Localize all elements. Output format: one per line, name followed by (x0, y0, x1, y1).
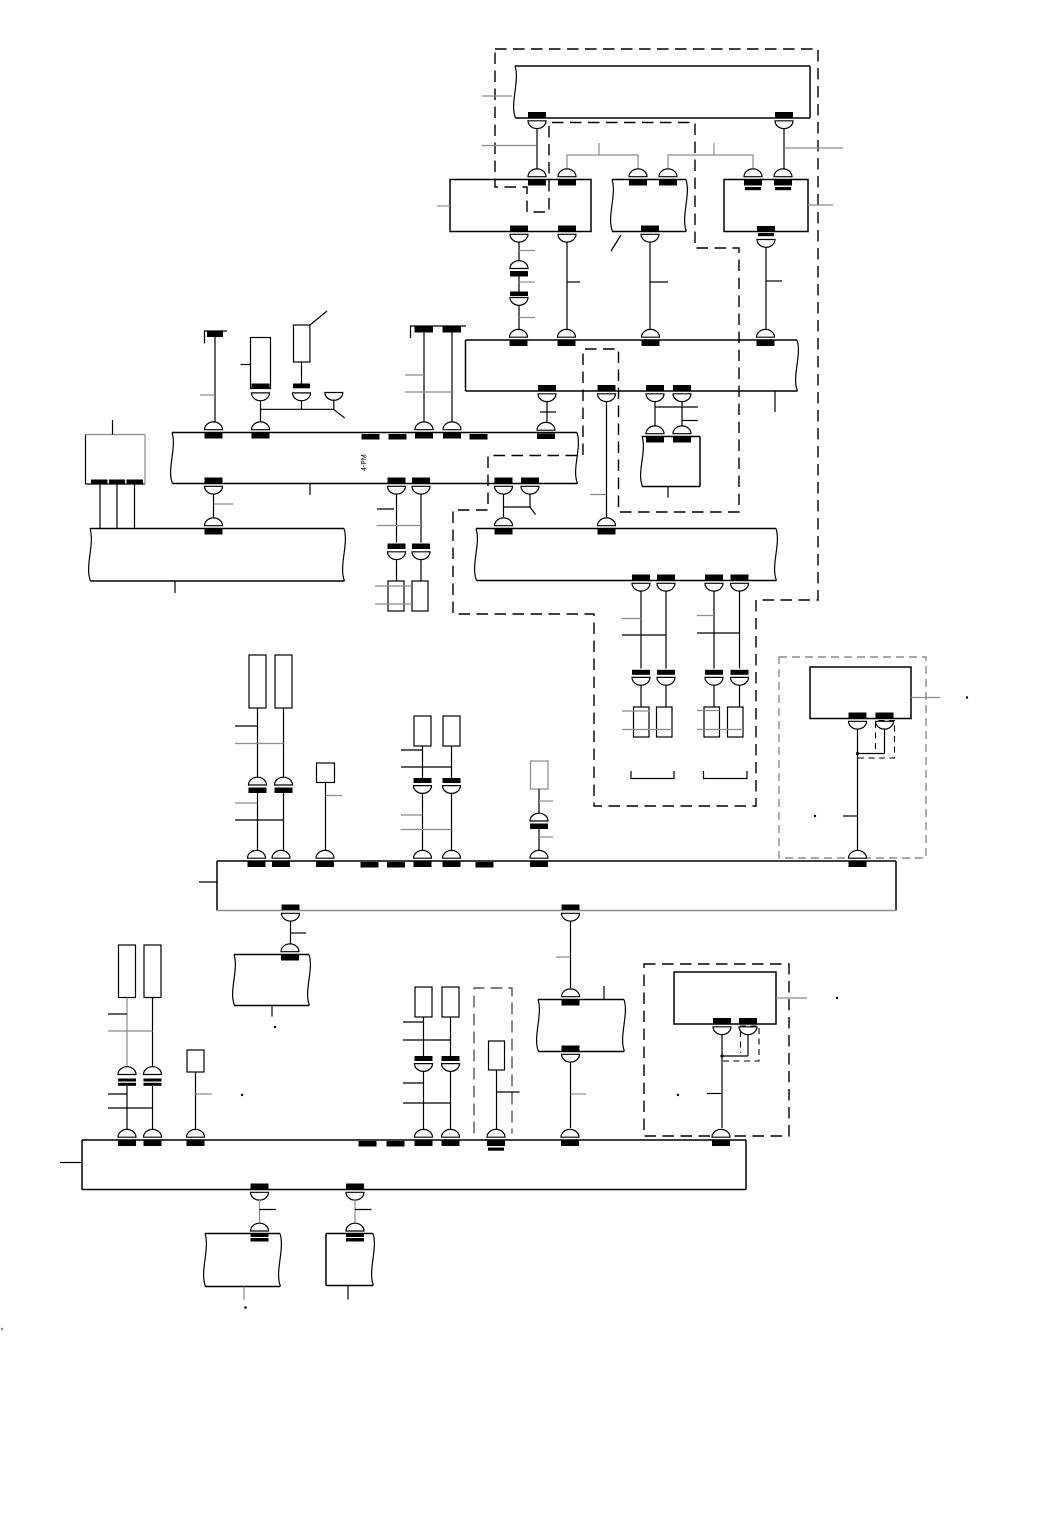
wire tick (567, 281, 580, 283)
breaker stab LB bottom x714 (705, 575, 723, 592)
wire tick (650, 281, 668, 283)
fuse feeder 3 (704, 707, 720, 737)
disconnect link B1 (414, 778, 432, 793)
wire (570, 1062, 572, 1128)
wire (496, 1070, 498, 1129)
dashed boundary around lower-right cabinet (644, 964, 789, 1136)
wire T1 lead b (116, 485, 118, 529)
wire (721, 1035, 723, 1128)
fuse FD1 (415, 987, 432, 1017)
disconnect link D2 (442, 1056, 460, 1071)
fuse feeder 2 (657, 707, 673, 737)
svg-text:4-РМ: 4-РМ (361, 454, 368, 471)
load box LC (187, 1050, 204, 1072)
breaker stab U1 bottom right (558, 226, 576, 243)
box U5 (lower right cabinet) (674, 972, 776, 1024)
wire (518, 242, 520, 261)
junction dot (856, 752, 859, 755)
bus B3 (LV busbar left) (89, 529, 346, 582)
wire (451, 333, 453, 422)
wire gray cross tick (401, 829, 452, 831)
breaker stab 4-PM bottom tie right (521, 478, 539, 495)
breaker stab U2 top right (659, 169, 677, 186)
disconnect link C2 (144, 1067, 162, 1086)
wire (422, 746, 424, 778)
breaker stab U5 bottom left (713, 1018, 731, 1035)
wire tick (497, 1091, 520, 1093)
wire tick (291, 932, 307, 934)
spare stab B5 a (359, 1141, 377, 1147)
dashed withdraw bracket U4 (858, 721, 895, 759)
wire (260, 401, 262, 422)
wire tick (355, 1209, 372, 1211)
breaker stab on box M2 (562, 989, 580, 1006)
wire (396, 494, 398, 543)
dot (677, 1094, 679, 1096)
breaker stab on bus B1 (from U3) (757, 329, 775, 346)
load box LD (489, 1041, 505, 1070)
wire gray tick (519, 281, 535, 283)
wire (152, 1086, 154, 1131)
wire cross tick (235, 819, 284, 821)
dot bottom left margin (1, 1328, 4, 1331)
wire (423, 1017, 425, 1056)
wire stub below TSN (667, 487, 669, 498)
breaker stab on bus B5 (from U5) (712, 1129, 730, 1146)
fuse FU1 (251, 338, 271, 389)
wire gray tick (539, 836, 553, 838)
breaker stab on bus B4 (from U4) (849, 850, 867, 867)
disconnect link A1 (249, 777, 267, 793)
breaker stab 4-PM bottom left (205, 478, 223, 495)
wire (566, 242, 568, 330)
breaker stab on bus B5 (from M2) (561, 1129, 579, 1146)
spare stab on 4-PM top 2 (389, 434, 407, 440)
spare stab B5 b (387, 1141, 405, 1147)
wire (649, 242, 651, 330)
wire gray cross tick (375, 585, 412, 587)
wire gray cross tick (235, 743, 284, 745)
wire (884, 730, 886, 754)
breaker stab on box U3 (774, 169, 792, 190)
wire (681, 401, 683, 426)
fuse FB1 (414, 716, 431, 746)
breaker stab on transformer TSN left (646, 426, 664, 443)
wire gray tick (697, 615, 714, 617)
wire gray link B (668, 155, 753, 168)
dashed withdraw bracket U5 (723, 1026, 759, 1061)
wire (857, 730, 859, 851)
wire (283, 793, 285, 852)
load box LB (gray) (531, 761, 549, 789)
junction dot (720, 1054, 723, 1057)
wire tick (682, 420, 698, 422)
disconnect link D1 (415, 1056, 433, 1071)
fuse FU2 (294, 325, 310, 362)
load box LA (317, 763, 335, 783)
dashed boundary of switchgear section (outer) (453, 49, 818, 806)
breaker stab on transformer TSN right (673, 426, 691, 443)
wire gray tick (377, 508, 394, 510)
breaker stab on B5 (C1) (118, 1129, 136, 1146)
wire (536, 129, 538, 169)
wire tick (766, 280, 782, 282)
breaker stab on bus B1 (from U1 left) (510, 329, 528, 346)
dot (241, 1094, 243, 1096)
dot (244, 1306, 247, 1309)
wire tick (540, 411, 556, 413)
wire gray cross tick (405, 391, 452, 393)
breaker stab on 4-PM (VT feeder) (252, 422, 270, 439)
dot (966, 696, 968, 698)
wire tick left of FU1 (241, 364, 251, 366)
terminal F1 (top flag) (204, 331, 227, 344)
wire gray link A stub (598, 143, 600, 155)
breaker stab U4 bottom left (849, 713, 867, 730)
cable bracket left (631, 771, 674, 779)
break slash below U2 (611, 235, 621, 251)
breaker stab 4-PM bottom x421 (412, 478, 430, 495)
wire T1 lead c (134, 485, 136, 529)
breaker stab on B4 (A1) (248, 850, 266, 867)
wire jumper (504, 506, 531, 508)
wire gray tick (519, 317, 535, 319)
wire gray tick (556, 956, 571, 958)
wire jumper (858, 753, 885, 755)
fuse feeder 4 (728, 707, 744, 737)
breaker stab on bus LB (tie) (495, 518, 513, 535)
breaker stab B5 bottom N2 (346, 1184, 364, 1201)
wire (546, 401, 548, 422)
box U1 (switchgear unit) (450, 180, 591, 232)
fuse FU1 element bar (252, 384, 270, 389)
wire gray cross tick (377, 525, 421, 527)
wire (503, 494, 505, 517)
breaker stab B5 bottom N1 (251, 1184, 269, 1201)
breaker stab M2 bottom (562, 1046, 580, 1063)
wire stub left of B5 (60, 1162, 82, 1164)
wire gray tick (235, 802, 258, 804)
breaker stab on bus 4-PM (tie from B1) (537, 422, 555, 439)
breaker stab U1 top right (558, 169, 576, 186)
breaker stab B1 bottom 1 (538, 385, 556, 402)
bus LB (lower middle busbar) (475, 529, 778, 581)
dot (274, 1026, 276, 1028)
wire (665, 591, 667, 669)
fuse FA1 (249, 655, 266, 708)
wire tick (403, 1021, 424, 1023)
breaker stab on box M1 (281, 944, 299, 961)
disconnect link C1 (118, 1067, 136, 1086)
wire (290, 921, 292, 945)
gray tick right of U4 (911, 697, 940, 699)
breaker stab on B4 (LA) (316, 850, 334, 867)
wire (665, 686, 667, 708)
wire tick (235, 725, 258, 727)
disconnect link B2 (443, 778, 461, 793)
wire (538, 789, 540, 813)
wire T1 lead a (99, 485, 101, 529)
dot (836, 997, 838, 999)
wire gray cross tick (375, 603, 412, 605)
wire cross tick (401, 766, 452, 768)
wire (640, 591, 642, 669)
wire gray tick left of U1 (437, 205, 450, 207)
disconnect switch cup (325, 393, 343, 401)
box U4 (right cabinet) (810, 667, 911, 719)
wire tick (260, 1209, 277, 1211)
wire (213, 494, 215, 517)
breaker stab B1 bottom 2 (598, 385, 616, 402)
wire gray tick (326, 795, 343, 797)
wire (640, 686, 642, 708)
breaker stab U3 bottom (double) (757, 226, 775, 247)
wire tick long (655, 406, 698, 408)
breaker stab B4 bottom right (562, 905, 580, 922)
disconnect link feeder (632, 670, 650, 685)
wire gray stub left of bus T (482, 95, 512, 97)
wire gray cross tick (622, 710, 650, 712)
wire stub left of B4 (199, 881, 217, 883)
wire tick (707, 1093, 722, 1095)
breaker stab 4-PM bottom tie left (495, 478, 513, 495)
wire gray tick right of U3 (808, 204, 833, 206)
breaker stab on bus T right (775, 112, 793, 129)
breaker stab B1 bottom 3 (646, 385, 664, 402)
wire gray link A (567, 155, 638, 168)
dashed boundary around feeder cell (474, 988, 512, 1134)
fuse FD2 (442, 987, 459, 1017)
wire (333, 400, 335, 410)
wire gray tick (571, 1093, 587, 1095)
wire (420, 560, 422, 581)
breaker stab on B5 (D1) (415, 1129, 433, 1146)
box U3 (switchgear unit) (724, 180, 808, 232)
spare stab B4 a (361, 862, 379, 868)
breaker stab on B5 (LD) (487, 1129, 505, 1150)
breaker stab on 4-PM (arrester) (205, 422, 223, 439)
breaker stab on B4 (LB) (530, 850, 548, 867)
wire cross tick (403, 1039, 451, 1041)
bus B1 (6kV section busbar) (466, 340, 799, 391)
breaker stab on B4 (B1) (414, 850, 432, 867)
wire (422, 794, 424, 853)
wire (152, 998, 154, 1068)
wire (126, 998, 128, 1068)
wire gray link B stub (713, 143, 715, 155)
disconnect link VT feeder (412, 544, 430, 560)
wire (654, 401, 656, 426)
wire cross tick (108, 1107, 153, 1109)
bus B4 (0.4kV busbar 1) (217, 861, 896, 911)
spare stab B4 c (476, 862, 494, 868)
wire tick (108, 1013, 127, 1015)
breaker stab U4 bottom right (876, 713, 894, 730)
wire gray tick (401, 814, 423, 816)
wire (570, 921, 572, 988)
disconnect link QS1 upper (510, 261, 528, 277)
wire (354, 1200, 356, 1223)
wire (739, 686, 741, 708)
box M1 (233, 955, 311, 1006)
fuse FB2 (443, 716, 460, 746)
breaker stab on bus B3 (205, 518, 223, 535)
wire (765, 248, 767, 331)
wire (257, 793, 259, 852)
disconnect blade (530, 507, 536, 515)
wire (529, 494, 531, 507)
wire gray cross tick (108, 1030, 153, 1032)
wire gray tick (196, 1093, 213, 1095)
wire (451, 746, 453, 778)
wire gray tick (200, 394, 215, 396)
gray tick right of U5 (776, 997, 807, 999)
pin stub on M2 top (603, 986, 605, 1000)
wire (126, 1086, 128, 1131)
wire jumper (722, 1055, 748, 1057)
fuse FC2 (144, 945, 161, 998)
wire gray cross tick (697, 710, 720, 712)
breaker stab on bus T left (528, 112, 546, 129)
wire (713, 686, 715, 708)
disconnect link VT feeder (388, 544, 406, 560)
wire gray cross tick (697, 729, 743, 731)
wire (747, 1035, 749, 1056)
wire (518, 276, 520, 292)
spare stab on 4-PM top 3 (470, 434, 488, 440)
wire cross tick (697, 632, 740, 634)
wire lead of FU2 (310, 311, 327, 325)
breaker stab on 4-PM (pair right) (443, 422, 461, 439)
wire stub below bus B1 right (774, 391, 776, 412)
wire (257, 708, 259, 777)
wire gray tick (539, 800, 553, 802)
breaker stab on bus B1 (from U2) (642, 329, 660, 346)
voltage transformer VT2 (412, 581, 428, 611)
wire tick (401, 749, 423, 751)
wire (783, 129, 785, 169)
breaker stab on B4 (A2) (272, 850, 290, 867)
contact cup below FU1 (252, 393, 270, 401)
disconnect link A2 (275, 777, 293, 793)
wire gray tap right (784, 147, 843, 149)
bus B5 (0.4kV busbar 2) (82, 1140, 746, 1190)
wire gray tick (622, 618, 641, 620)
breaker stab U2 top left (629, 169, 647, 186)
wire (451, 794, 453, 853)
breaker stab U2 bottom (641, 226, 659, 243)
transformer box TSN (641, 437, 700, 487)
wire (713, 591, 715, 669)
breaker stab LB bottom x641 (632, 575, 650, 592)
wire gray tick (519, 250, 535, 252)
wire (325, 783, 327, 853)
disconnect link N2 (346, 1223, 364, 1241)
wire collector (261, 408, 334, 410)
spare stab B4 b (387, 862, 405, 868)
breaker stab U5 bottom right (739, 1018, 757, 1035)
wire (606, 401, 608, 517)
fuse FC1 (119, 945, 136, 998)
bus 4-PM (171, 433, 579, 484)
wire (420, 494, 422, 543)
transformer box T1 (86, 435, 146, 485)
wire (423, 1072, 425, 1132)
breaker stab LB bottom x666 (657, 575, 675, 592)
disconnect link LB (530, 813, 548, 829)
contact cup below FU2 (293, 393, 311, 401)
breaker stab B4 bottom left (282, 905, 300, 922)
bus T (top supply busbar) (514, 66, 810, 118)
wire (259, 1200, 261, 1223)
breaker stab B1 bottom 4 (673, 385, 691, 402)
wire tick (843, 815, 858, 817)
wire stub below N1 (243, 1287, 245, 1301)
wire (301, 362, 303, 384)
disconnect blade (334, 409, 345, 418)
wire (538, 829, 540, 852)
fuse feeder 1 (634, 707, 650, 737)
wire gray stub left of bus T lower (482, 145, 536, 147)
breaker stab on B5 (D2) (442, 1129, 460, 1146)
disconnect link feeder (731, 670, 749, 685)
gray dashed boundary around right cabinet (779, 657, 926, 858)
dot (814, 815, 816, 817)
terminal F2 flag pair (410, 326, 466, 338)
voltage transformer VT1 (388, 581, 404, 611)
box U2 (switchgear unit, broken edges) (611, 180, 688, 232)
breaker stab on B5 (C2) (144, 1129, 162, 1146)
breaker stab U1 bottom left (510, 226, 528, 243)
wire cross tick (622, 634, 666, 636)
wire stub below 4-PM (309, 484, 311, 496)
wire (283, 708, 285, 777)
wire tick (108, 1093, 127, 1095)
cable bracket right (704, 771, 748, 779)
box N1 (outgoing) (204, 1234, 282, 1287)
breaker stab LB bottom x739.5 (731, 575, 749, 592)
spare stab on 4-PM top 1 (362, 434, 380, 440)
contact bar FU2 (293, 384, 310, 389)
breaker stab on B4 (B2) (443, 850, 461, 867)
wire cross tick (403, 1102, 451, 1104)
breaker stab on bus LB (from B1) (598, 518, 616, 535)
wire (195, 1072, 197, 1131)
wire gray tick (405, 374, 424, 376)
fuse FA2 (275, 655, 292, 708)
breaker stab on 4-PM (pair left) (415, 422, 433, 439)
box N2 (outgoing) (326, 1234, 374, 1286)
wire stub below B3 (174, 581, 176, 593)
disconnect link N1 (251, 1223, 269, 1241)
disconnect link feeder (705, 670, 723, 685)
disconnect link feeder (657, 670, 675, 685)
box M2 (537, 1000, 626, 1052)
wire (301, 401, 303, 410)
wire gray tick (590, 494, 607, 496)
wire tick (403, 1082, 424, 1084)
wire (214, 337, 216, 422)
wire (450, 1017, 452, 1056)
wire (423, 333, 425, 422)
breaker stab on bus B1 (from U1 right) (558, 329, 576, 346)
breaker stab on B5 (LC) (187, 1129, 205, 1146)
wire gray cross tick (622, 729, 672, 731)
wire (450, 1072, 452, 1132)
disconnect link QS1 lower (510, 292, 528, 306)
wire stub above T1 (112, 420, 114, 435)
breaker stab 4-PM bottom x396.5 (388, 478, 406, 495)
